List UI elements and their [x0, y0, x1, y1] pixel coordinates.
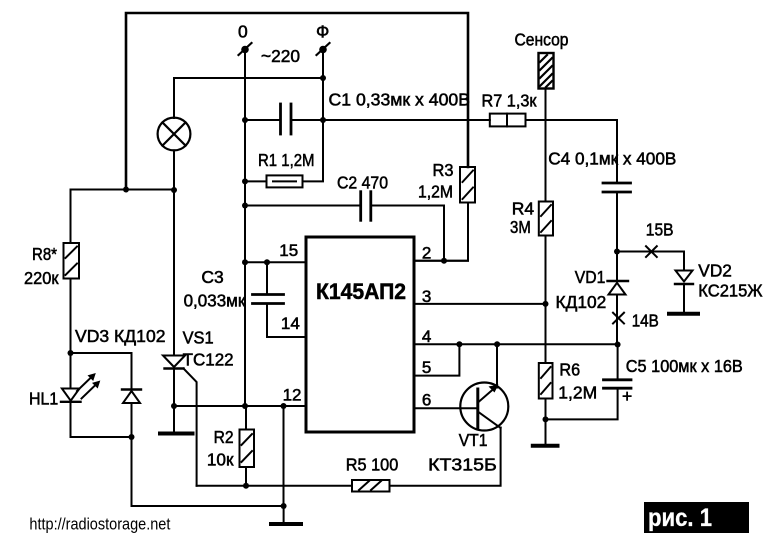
node C2 left [242, 203, 248, 209]
IC U1 К145АП2 [306, 237, 414, 432]
resistor R8 [64, 243, 80, 279]
svg-text:HL1: HL1 [29, 389, 58, 409]
svg-text:Ф: Ф [316, 22, 329, 42]
node R8 box [68, 350, 74, 356]
svg-text:220к: 220к [24, 268, 59, 288]
svg-text:2: 2 [422, 244, 431, 263]
node border left [123, 187, 129, 193]
wire top border loop [126, 13, 468, 190]
wire left branch to R8 [71, 190, 175, 244]
svg-text:C4 0,1мк x 400В: C4 0,1мк x 400В [548, 149, 676, 169]
svg-text:VT1: VT1 [459, 430, 488, 450]
node C5 top [615, 342, 621, 348]
wire R3 to pin2 [416, 203, 468, 261]
wire C4 to VD1 node [616, 192, 618, 252]
svg-text:1,2М: 1,2М [418, 182, 453, 202]
wire pin 2 [416, 260, 468, 262]
node pin5 pin4 [456, 341, 462, 347]
svg-text:14: 14 [281, 314, 300, 333]
svg-text:10к: 10к [207, 450, 234, 470]
ground under VS1 [160, 432, 193, 436]
measure point 15V [646, 246, 657, 257]
node VS1 cathode [171, 403, 177, 409]
wire LED left branch [70, 353, 72, 389]
node bus gnd [281, 503, 287, 509]
node box bus [129, 434, 135, 440]
diode VD1 [608, 252, 629, 345]
wire sensor down to R4 [545, 89, 547, 202]
terminal 0 [239, 43, 252, 55]
svg-text:VD2: VD2 [698, 260, 732, 280]
lamp [158, 118, 191, 151]
svg-text:С3: С3 [201, 267, 223, 287]
wire to ground bus [132, 437, 284, 506]
svg-text:4: 4 [422, 327, 431, 346]
wire VD3 branch [131, 353, 133, 390]
svg-text:R4: R4 [512, 199, 535, 219]
svg-text:R6: R6 [559, 360, 580, 380]
svg-text:R5 100: R5 100 [346, 455, 399, 475]
wire R1 left [245, 180, 267, 182]
wire lamp feed [174, 78, 323, 118]
svg-text:ТС122: ТС122 [183, 350, 234, 370]
wire pin 12 [174, 405, 306, 407]
svg-text:R1 1,2M: R1 1,2M [258, 150, 315, 170]
node C1 left [242, 117, 248, 123]
svg-text:3М: 3М [510, 217, 531, 237]
capacitor C3 [253, 262, 307, 337]
measure point 14V [613, 313, 624, 324]
node R2 bottom [243, 483, 249, 489]
wire pin 6 [416, 407, 478, 409]
svg-text:рис. 1: рис. 1 [648, 504, 712, 532]
svg-text:15В: 15В [646, 219, 674, 239]
wire LED box top [71, 352, 132, 354]
resistor R6 [539, 304, 553, 444]
node emitter pin4 [494, 341, 500, 347]
transistor VT1 [460, 344, 508, 430]
resistor R2 [240, 406, 255, 486]
node Ф lamp [320, 75, 326, 81]
capacitor C5 [546, 345, 632, 420]
svg-text:R2: R2 [214, 427, 234, 447]
ground bottom center [271, 506, 301, 524]
wire pin 15 [245, 261, 306, 263]
svg-text:0: 0 [238, 22, 248, 42]
svg-text:3: 3 [422, 287, 431, 306]
wire C1 to C4 corner [291, 119, 490, 121]
svg-text:0,033мк: 0,033мк [184, 291, 246, 311]
node C3 top [264, 259, 270, 265]
ground under R6 [533, 444, 558, 448]
node pin12 gnd [281, 403, 287, 409]
wire pin 4 [416, 343, 618, 345]
wire VD2 branch [683, 252, 685, 271]
thyristor VS1 [163, 356, 197, 486]
wire R1 right up [303, 120, 324, 181]
svg-text:C1 0,33мк x 400В: C1 0,33мк x 400В [329, 90, 471, 110]
resistor R3 [460, 167, 475, 203]
node lamp bottom [171, 187, 177, 193]
diode VD3 [122, 390, 141, 404]
node C2 pin2 [441, 258, 447, 264]
svg-text:КС215Ж: КС215Ж [698, 281, 762, 301]
svg-text:К145АП2: К145АП2 [316, 279, 406, 304]
capacitor C4 [603, 183, 631, 192]
svg-text:VS1: VS1 [183, 328, 214, 348]
node R1 left [242, 178, 248, 184]
wire LED box bottom [71, 436, 132, 438]
node Ф C1 [320, 117, 326, 123]
resistor R7 [490, 114, 526, 127]
svg-text:C2 470: C2 470 [337, 173, 388, 193]
node pin12 0line [242, 403, 248, 409]
svg-text:14В: 14В [632, 311, 659, 331]
svg-text:12: 12 [283, 386, 302, 405]
svg-text:~220: ~220 [261, 46, 300, 66]
svg-text:15: 15 [279, 241, 298, 260]
svg-text:6: 6 [422, 391, 431, 410]
wire lamp to VS1 [173, 150, 175, 355]
figure label box [644, 502, 749, 533]
svg-text:Сенсор: Сенсор [515, 30, 569, 50]
wire pin 3 [416, 303, 546, 305]
svg-text:C5 100мк x 16В: C5 100мк x 16В [626, 356, 743, 376]
capacitor C1 [245, 104, 291, 134]
wire HL1 to box bottom [70, 402, 72, 437]
svg-text:R8*: R8* [32, 244, 57, 264]
capacitor C2 [245, 192, 371, 221]
svg-text:http://radiostorage.net: http://radiostorage.net [29, 514, 170, 533]
zener VD2 [675, 271, 693, 312]
svg-text:R3: R3 [433, 160, 454, 180]
svg-text:VD1: VD1 [575, 267, 606, 287]
wire R7 to C4 [526, 120, 618, 183]
wire gate to R5 [197, 485, 352, 487]
resistor R5 [352, 480, 390, 492]
wire VD3 to box bottom [131, 403, 133, 437]
svg-text:КД102: КД102 [556, 292, 607, 312]
ground under VD2 [669, 312, 698, 316]
resistor R4 [539, 202, 553, 236]
wire C2 to pin2 [371, 206, 444, 261]
svg-text:VD3 КД102: VD3 КД102 [75, 326, 166, 346]
node R6 bottom [543, 416, 549, 422]
node pin15 0line [242, 259, 248, 265]
wire 15V node [617, 251, 684, 253]
sensor plate [539, 53, 554, 89]
wire pin 5 [416, 344, 459, 375]
node VD1 top [614, 249, 620, 255]
resistor R1 [267, 175, 303, 187]
wire 0-line vertical [244, 51, 246, 406]
wire R5 to VT1 emitter... collector [390, 428, 501, 486]
wire Ф-line vertical [322, 51, 324, 120]
svg-text:КТ315Б: КТ315Б [428, 455, 497, 475]
terminal Ф [317, 43, 330, 55]
svg-text:1,2М: 1,2М [558, 383, 597, 403]
wire R4 to pin3 [545, 236, 547, 364]
svg-text:R7 1,3к: R7 1,3к [482, 91, 537, 111]
svg-text:5: 5 [422, 358, 431, 377]
wire R8 to LED box [70, 279, 72, 354]
LED HL1 [61, 373, 100, 402]
svg-text:+: + [622, 386, 632, 406]
wire pin12 to ground bus [283, 406, 285, 506]
node pin3 R6 [543, 301, 549, 307]
